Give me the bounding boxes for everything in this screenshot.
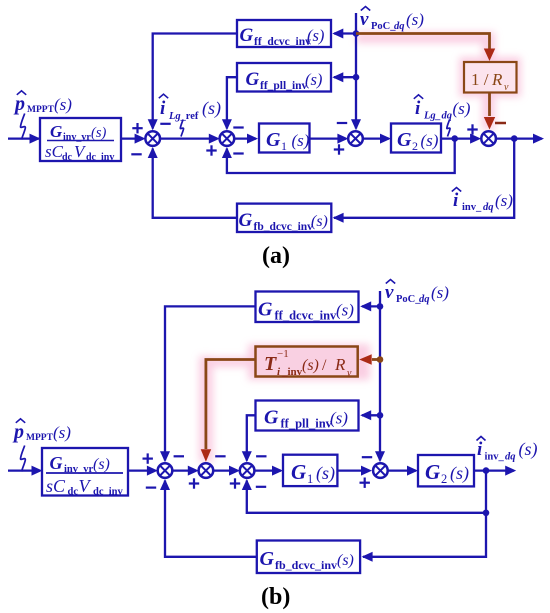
svg-text:PoC_: PoC_ [371,21,396,32]
brown wire: T box output down into sum B2 [201,360,256,462]
svg-text:Lg: Lg [423,111,436,122]
svg-text:v: v [347,368,352,379]
sign plus at sum B1 left [143,453,153,463]
summing junction A2 [220,131,235,146]
wire: vPoC line down into sum A3 [351,13,361,130]
sign plus at sum A3 left-bottom [334,144,344,154]
node: outer feedback tap (a) [511,135,518,142]
small-signal squiggle after sum A1 [180,120,183,137]
sign minus at sum B3 bottom [256,486,266,488]
svg-text:sC: sC [45,142,64,161]
svg-text:Lg: Lg [168,111,181,122]
svg-text:(s): (s) [519,439,538,460]
svg-text:2: 2 [412,139,418,153]
svg-text:MPPT: MPPT [26,433,54,443]
svg-text:G: G [425,460,440,484]
label iLg_dq(s) (a) [414,95,471,122]
svg-text:1 /: 1 / [471,70,489,89]
wire: G2 box to output arrow (b) [474,466,516,476]
svg-text:(s): (s) [453,99,471,118]
svg-text:inv_: inv_ [485,452,505,463]
svg-text:p: p [12,421,24,443]
sign minus at sum A2 bottom [233,152,243,154]
node: output tap (b) [483,467,490,474]
sign plus at sum B4 left-bottom [360,478,370,488]
wire: Gff_dcvc output down into sum A1 [148,34,237,131]
svg-text:(s): (s) [450,463,469,484]
sign minus at sum B1 bottom [146,487,156,489]
sign minus at sum A3 top [337,122,347,124]
wire: vPoC line down into sum B4 [375,291,385,462]
svg-text:(s): (s) [54,95,72,114]
svg-text:i: i [477,439,483,460]
svg-text:PoC_: PoC_ [396,294,421,305]
wire: G1 box to sum B4 [337,466,372,476]
svg-text:−1: −1 [277,348,289,360]
svg-text:G: G [266,129,281,151]
svg-text:(s): (s) [316,463,335,484]
svg-text:ff_dcvc_inv: ff_dcvc_inv [275,309,338,323]
svg-text:v: v [360,9,369,30]
block Ginv_vr/sCdcVdc (a) [40,118,121,163]
wire: vPoC branch arrow into Gff_dcvc (b) [360,301,380,311]
sign minus at sum B1 top [174,455,184,457]
svg-text:dq: dq [394,21,405,32]
wire: sum A2 to G1 box (a) [234,134,258,144]
svg-text:2: 2 [441,472,447,486]
svg-text:dc: dc [62,152,73,163]
label vPoC_dq(s) (b) [385,280,449,306]
wire: sum B2 to sum B3 [213,466,240,476]
svg-text:(s): (s) [302,357,319,374]
wire: sum B3 to G1 box (b) [254,466,283,476]
svg-text:v: v [504,82,509,93]
small-signal squiggle on input (a) [21,114,26,140]
svg-text:(s): (s) [91,125,106,141]
wire: outer feedback into Gfb box (a) [333,139,515,223]
sign plus at sum A1 left [132,123,142,133]
label iLg_ref(s) (a) [159,94,221,122]
block 1/Rv (a) [464,62,517,93]
svg-text:(s): (s) [307,26,324,45]
block G1 (a) [259,124,310,154]
node: feedback tap (b) [483,510,490,517]
svg-text:_inv: _inv [281,366,303,378]
sign minus at sum A2 top [233,126,243,128]
svg-text:_ref: _ref [180,111,199,122]
caption (b) [261,584,290,610]
svg-text:R: R [491,70,503,89]
summing junction B2 [199,463,214,478]
wire: Gff_dcvc output down into sum B1 [160,306,256,462]
svg-text:dq: dq [505,452,516,463]
svg-text:G: G [246,69,260,90]
svg-text:1: 1 [281,139,287,153]
block Ginv_vr/sCdcVdc (b) [42,448,128,498]
wire: sum A3 to G2 box (a) [363,134,391,144]
svg-text:(s): (s) [337,552,354,569]
wire: input to Ginv box (b) [8,466,43,476]
label iinv_dq(s) (b) [477,437,538,463]
svg-text:1: 1 [307,472,313,486]
sign minus at sum B3 top [256,455,266,457]
svg-text:(s): (s) [292,131,310,150]
node on vPoC line at Gff_pll branch (b) [377,412,384,419]
small-signal squiggle on input (b) [21,446,26,472]
wire: G2 box to sum A4 with tap node [441,134,481,144]
svg-text:dc: dc [68,487,79,498]
svg-text:fb_dcvc_inv: fb_dcvc_inv [254,221,314,233]
block T_i_inv^-1 / Rv (b) [256,347,358,380]
brown wire: vPoC to 1/Rv box (a) [356,34,495,62]
svg-text:dq: dq [419,294,430,305]
svg-text:v: v [385,282,394,303]
svg-text:G: G [50,122,63,141]
small-signal squiggle before sum A4 [447,120,450,137]
svg-text:ff_dcvc_inv: ff_dcvc_inv [254,36,311,48]
svg-text:inv_: inv_ [462,202,482,213]
node on vPoC line at Gff_pll branch (a) [353,74,360,81]
svg-text:dc_inv: dc_inv [86,152,114,163]
svg-text:dq: dq [483,202,494,213]
block Gff_dcvc_inv (a) [237,20,331,48]
svg-text:i: i [415,98,421,119]
svg-text:G: G [240,25,254,46]
svg-text:_: _ [434,111,441,122]
summing junction A1 [145,131,160,146]
svg-text:(s): (s) [421,131,439,150]
block Gff_pll_inv (b) [256,401,359,431]
block Gff_dcvc_inv (b) [256,292,359,323]
summing junction A3 [348,131,363,146]
wire: inner feedback loop (b) into sum B3 [242,471,486,513]
wire: Gff_pll output down into sum B3 [242,415,256,462]
svg-text:(s): (s) [202,98,221,119]
node: inner feedback tap (a) [451,135,458,142]
sign plus at sum B2 left-bottom [189,478,199,488]
wire: outer feedback into Gfb box (b) [362,513,486,562]
sign minus at sum B2 top [215,455,225,457]
wire: Gfb box output up into sum B1 [160,479,257,557]
block G2 (b) [418,455,474,486]
brown wire: 1/Rv box down into sum A4 [484,93,495,130]
sign plus at sum A4 left [467,124,477,134]
svg-text:T: T [264,353,277,375]
wire: Gff_pll output down into sum A2 [222,77,237,130]
svg-text:(s): (s) [305,70,322,89]
label pMPPT(s) (b) [12,419,71,443]
svg-text:(s): (s) [330,409,348,428]
summing junction A4 [481,131,496,146]
svg-text:sC: sC [46,476,66,496]
svg-text:p: p [13,93,25,115]
block Gff_pll_inv (a) [237,63,331,92]
label pMPPT(s) (a) [13,91,72,115]
block G1 (b) [283,455,337,486]
svg-text:i: i [453,190,459,211]
wire: sum B4 to G2 box (b) [388,466,418,476]
wire: sum A1 to sum A2 [160,134,220,144]
block G2 (a) [391,124,441,154]
svg-text:(b): (b) [261,584,290,610]
svg-text:G: G [239,210,253,231]
svg-text:i: i [160,98,166,119]
summing junction B1 [158,463,173,478]
pink highlighter glow on virtual-resistor path (a) [356,32,521,130]
svg-text:G: G [291,460,306,484]
wire: G1 box to sum A3 [310,134,349,144]
svg-text:/: / [322,357,327,374]
svg-text:(s): (s) [93,456,110,473]
svg-text:dc_inv: dc_inv [93,487,124,498]
brown wire: vPoC branch arrow into T box (b) [359,354,380,365]
sign minus at sum B4 top [362,456,372,458]
svg-text:G: G [260,548,275,570]
wire: inner feedback loop (a) into sum A2 [222,139,455,173]
summing junction B4 [373,463,388,478]
block Gfb_dcvc_inv (b) [257,541,360,574]
svg-text:dq: dq [442,111,453,122]
pink highlighter glow on virtual-resistor path (b) [199,344,370,462]
block Gfb_dcvc_inv (a) [237,204,331,233]
svg-text:G: G [397,129,412,151]
svg-text:(a): (a) [262,243,290,269]
svg-text:(s): (s) [311,213,328,230]
wire: input to Ginv box (a) [8,134,41,144]
sign plus at sum B3 left-bottom [230,478,240,488]
svg-text:(s): (s) [495,191,513,210]
wire: vPoC branch arrow into Gff_dcvc (a) [332,29,356,39]
node on vPoC line at Gff_dcvc branch (b) [377,303,384,310]
svg-text:ff_pll_inv: ff_pll_inv [260,80,308,92]
sign minus at sum A1 bottom [131,153,141,155]
wire: vPoC branch arrow into Gff_pll (b) [360,410,380,420]
wire: sum A4 to output arrow (a) [496,134,544,144]
wire: sum B1 to sum B2 [172,466,199,476]
svg-text:MPPT: MPPT [27,105,55,115]
svg-text:R: R [334,355,346,374]
svg-text:(s): (s) [406,10,424,29]
wire: Gfb box output up into sum A1 [148,147,237,218]
caption (a) [262,243,290,269]
svg-text:ff_pll_inv: ff_pll_inv [281,417,333,431]
label iinv_dq(s) (a) [452,188,513,214]
node (brown) on vPoC line at T-box branch (b) [377,356,384,363]
svg-text:G: G [264,407,279,429]
sign minus (dark red) at sum A4 top [495,122,506,125]
svg-text:G: G [258,299,273,321]
summing junction B3 [240,463,255,478]
wire: Ginv box to sum A1 [121,134,146,144]
svg-text:(s): (s) [431,283,449,302]
svg-text:(s): (s) [336,301,354,320]
svg-text:G: G [50,453,63,473]
svg-text:(s): (s) [53,423,71,442]
svg-text:fb_dcvc_inv: fb_dcvc_inv [275,558,337,572]
node on vPoC line at Gff_dcvc branch (a) [353,30,360,37]
label vPoC_dq(s) (a) [360,7,424,33]
sign minus at sum A1 top [160,123,170,125]
sign plus at sum A2 left-bottom [206,145,216,155]
wire: Ginv box to sum B1 [128,466,158,476]
wire: vPoC branch arrow into Gff_pll (a) [332,72,356,82]
